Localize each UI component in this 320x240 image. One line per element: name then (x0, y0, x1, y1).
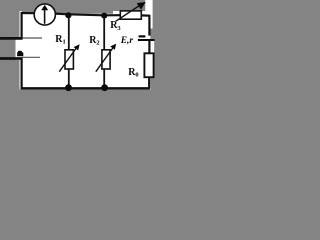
node J3 bottom of R1 branch (65, 84, 72, 91)
wire: bottom-left vertical (21, 58, 23, 88)
node J1 top of R1 branch (65, 12, 71, 18)
node J4 bottom of R2 branch (101, 84, 108, 91)
wire: R2 branch lower (103, 69, 105, 88)
wire: top horizontal (21, 13, 121, 15)
wire: top-right segment to corner (141, 14, 150, 17)
terminal stub upper (0, 37, 23, 40)
resistor R0 (144, 53, 153, 77)
battery E,r (138, 36, 155, 40)
wire: right vertical middle (148, 41, 150, 54)
ammeter (galvanometer) (34, 4, 55, 25)
svg-text:E,r: E,r (120, 36, 134, 46)
rheostat R1 (59, 44, 79, 71)
wire: R2 branch upper (103, 16, 105, 51)
wire: R1 branch upper (68, 15, 70, 50)
wire: right vertical upper (148, 15, 150, 36)
wire: right vertical lower (148, 77, 150, 89)
node J2 top of R2 branch (101, 13, 107, 19)
terminal label a (17, 51, 23, 57)
wire: R1 branch lower (68, 69, 70, 88)
wire: bottom horizontal (21, 87, 150, 89)
rheostat R3 (116, 2, 146, 21)
terminal stub lower (0, 57, 23, 60)
rheostat R2 (96, 44, 116, 72)
wire: top-left vertical (21, 12, 23, 39)
